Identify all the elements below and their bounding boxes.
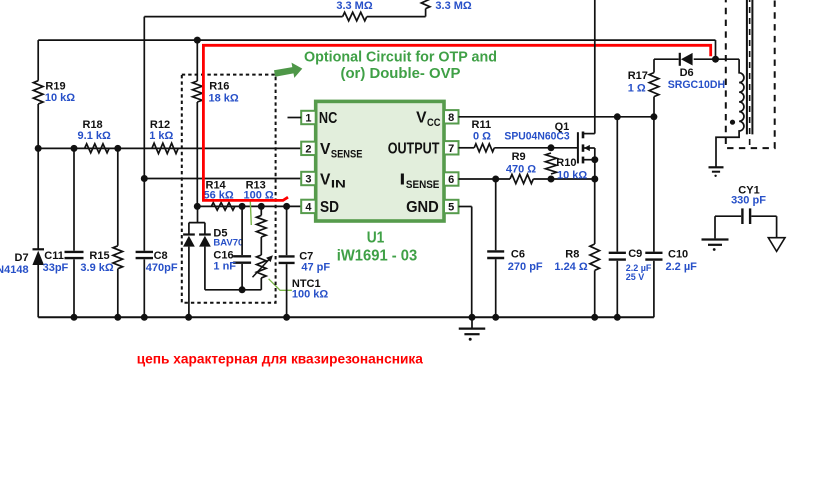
- svg-text:R11: R11: [472, 119, 492, 131]
- svg-text:OUTPUT: OUTPUT: [388, 141, 440, 158]
- label R17: [628, 70, 648, 95]
- label D5: [213, 228, 243, 249]
- pin boxes U1: [301, 110, 458, 213]
- svg-text:R9: R9: [512, 151, 526, 163]
- node Vin-left: [141, 175, 148, 182]
- label 3.3 Mohm horizontal: [336, 0, 373, 12]
- resistor R10: [546, 153, 557, 174]
- wire SD row: [197, 205, 301, 207]
- wire Isense row: [459, 178, 596, 180]
- label 3.3 Mohm vertical: [435, 0, 472, 12]
- label R12: [149, 119, 173, 142]
- svg-text:C6: C6: [511, 249, 525, 261]
- wire CY1 right: [776, 216, 778, 238]
- svg-text:R10: R10: [556, 157, 576, 169]
- transformer polarity dot: [730, 120, 735, 125]
- svg-text:10 kΩ: 10 kΩ: [45, 92, 75, 104]
- label R9: [506, 151, 536, 176]
- diode D6: [680, 53, 693, 66]
- green heading line2: [341, 66, 461, 82]
- ground transformer: [709, 167, 724, 177]
- resistor 3.3 Mohm vertical (cut at top): [421, 0, 430, 9]
- svg-text:33pF: 33pF: [43, 262, 69, 274]
- node Vcc junctions: [614, 113, 658, 120]
- svg-text:4: 4: [305, 201, 312, 213]
- svg-text:7: 7: [448, 143, 454, 155]
- label C7: [299, 251, 330, 274]
- node R10 top: [548, 144, 555, 151]
- red note text: [137, 350, 423, 366]
- wire output row: [459, 147, 578, 149]
- capacitor C11: [65, 148, 84, 317]
- svg-text:C11: C11: [44, 250, 64, 262]
- label CY1: [731, 185, 766, 207]
- node snubber junction: [712, 56, 719, 63]
- svg-text:D7: D7: [15, 252, 29, 264]
- wire bulk rail y=40: [38, 39, 715, 41]
- resistor R18: [85, 144, 110, 153]
- wire R16 vertical: [196, 40, 198, 206]
- green heading line1: [304, 50, 497, 66]
- svg-text:100 kΩ: 100 kΩ: [292, 289, 329, 301]
- resistor R12: [152, 143, 178, 153]
- ground earth CY1 right: [768, 238, 785, 252]
- wire Vcc row: [459, 116, 654, 118]
- label C16: [213, 250, 236, 273]
- capacitor C7: [279, 206, 295, 317]
- svg-text:2: 2: [305, 143, 311, 155]
- svg-text:R17: R17: [628, 70, 648, 82]
- transistor Q1: [578, 0, 598, 179]
- ground CY1 left: [702, 240, 729, 251]
- resistor R13: [257, 206, 267, 255]
- label R16: [209, 81, 239, 105]
- label U1: [367, 230, 385, 247]
- resistor R15: [113, 148, 123, 317]
- label C9: [626, 248, 652, 282]
- svg-text:SENSE: SENSE: [406, 179, 440, 191]
- wire Vin row: [144, 178, 301, 180]
- transformer dashed box: [726, 0, 775, 148]
- svg-text:V: V: [416, 110, 427, 127]
- node Isense junctions: [492, 176, 598, 183]
- capacitor C9: [609, 117, 626, 317]
- node bulk-R16: [194, 37, 201, 44]
- ground main: [459, 317, 486, 341]
- wire snubber top: [654, 59, 739, 72]
- wire ground bus: [38, 316, 654, 318]
- svg-text:I: I: [399, 172, 405, 189]
- label R13: [243, 179, 273, 201]
- svg-text:0 Ω: 0 Ω: [473, 131, 491, 143]
- wire CY1 left: [714, 216, 716, 238]
- svg-text:SRGC10DH: SRGC10DH: [668, 79, 725, 91]
- svg-text:iW1691 - 03: iW1691 - 03: [337, 248, 418, 265]
- svg-text:1: 1: [305, 113, 311, 125]
- svg-text:U1: U1: [367, 230, 385, 247]
- svg-text:Optional Circuit for OTP and: Optional Circuit for OTP and: [304, 50, 497, 66]
- wire pin5 GND: [459, 207, 472, 318]
- label R14: [203, 179, 233, 201]
- svg-text:1N4148: 1N4148: [0, 264, 29, 276]
- svg-text:GND: GND: [406, 199, 439, 216]
- label iW1691-03: [337, 248, 418, 265]
- svg-text:D6: D6: [680, 67, 694, 79]
- svg-text:5: 5: [448, 202, 454, 214]
- svg-text:NC: NC: [319, 110, 337, 127]
- label R18: [78, 119, 111, 142]
- transformer core: [747, 0, 753, 147]
- svg-text:R16: R16: [209, 81, 229, 93]
- svg-text:3.3 MΩ: 3.3 MΩ: [435, 0, 472, 12]
- svg-text:1 kΩ: 1 kΩ: [149, 130, 173, 142]
- label R8: [554, 249, 587, 273]
- svg-text:1 nF: 1 nF: [213, 260, 236, 272]
- wire Vsense row: [38, 147, 301, 149]
- label R10: [556, 157, 587, 182]
- svg-text:C8: C8: [154, 250, 168, 262]
- svg-text:3.3 MΩ: 3.3 MΩ: [336, 0, 373, 12]
- resistor R14: [211, 203, 235, 211]
- pin 1 stub NC: [288, 117, 302, 119]
- node SD junctions: [194, 203, 290, 210]
- green arrow: [274, 63, 302, 78]
- resistor R11: [474, 144, 494, 152]
- wire mid vertical x=144: [143, 17, 145, 179]
- label R19: [45, 80, 75, 104]
- pin names U1: [319, 110, 441, 217]
- svg-text:SENSE: SENSE: [331, 149, 363, 161]
- resistor R17: [649, 73, 659, 117]
- dashed box optional circuit: [182, 75, 276, 303]
- svg-text:270 pF: 270 pF: [508, 261, 543, 273]
- svg-text:BAV70: BAV70: [213, 237, 243, 248]
- svg-text:SPU04N60C3: SPU04N60C3: [504, 131, 569, 143]
- leader NTC1: [269, 279, 292, 291]
- label D7: [0, 252, 29, 276]
- svg-text:C9: C9: [628, 248, 642, 260]
- svg-text:9.1 kΩ: 9.1 kΩ: [78, 130, 111, 142]
- resistor R19: [33, 81, 43, 104]
- svg-text:18 kΩ: 18 kΩ: [209, 93, 239, 105]
- svg-text:(or) Double- OVP: (or) Double- OVP: [341, 66, 461, 82]
- label R11: [472, 119, 492, 143]
- bus junction dots: [71, 314, 621, 321]
- node rail-C16: [239, 286, 246, 293]
- label C8: [146, 250, 178, 274]
- wire left vertical top: [37, 40, 39, 81]
- wire left vertical middle: [37, 104, 39, 249]
- capacitor C8: [136, 179, 153, 318]
- svg-text:C10: C10: [668, 249, 688, 261]
- diode D5 (BAV70 dual): [183, 206, 211, 317]
- svg-text:R19: R19: [45, 80, 65, 92]
- svg-text:6: 6: [448, 174, 454, 186]
- resistor R8: [590, 179, 600, 317]
- svg-text:470 Ω: 470 Ω: [506, 164, 536, 176]
- label C6: [508, 249, 543, 273]
- wire bulk corner: [715, 40, 717, 59]
- op-amp U1 body: [316, 101, 444, 221]
- svg-text:цепь характерная для квазирезо: цепь характерная для квазирезонансника: [137, 350, 423, 366]
- svg-text:3.9 kΩ: 3.9 kΩ: [80, 262, 113, 274]
- resistor 3.3 Mohm horizontal: [343, 12, 367, 21]
- svg-text:V: V: [320, 171, 331, 188]
- wire NTC local rail: [205, 289, 261, 291]
- svg-text:47 pF: 47 pF: [301, 262, 330, 274]
- capacitor C6: [487, 179, 504, 317]
- capacitor C10: [645, 117, 662, 317]
- svg-text:470pF: 470pF: [146, 262, 178, 274]
- label NTC1: [292, 278, 329, 301]
- svg-text:V: V: [320, 141, 331, 158]
- label Q1: [504, 121, 569, 143]
- svg-text:2.2 µF: 2.2 µF: [666, 261, 698, 273]
- red annotation path: [202, 45, 711, 200]
- resistor R16: [193, 81, 203, 102]
- diode D7: [32, 249, 44, 317]
- resistor R9: [510, 174, 533, 183]
- svg-text:25 V: 25 V: [626, 272, 645, 282]
- label D6: [668, 67, 725, 91]
- label C11: [43, 250, 69, 274]
- svg-text:R8: R8: [565, 249, 579, 261]
- label C10: [666, 249, 698, 273]
- leader R13: [250, 199, 251, 225]
- thermistor NTC1: [253, 255, 273, 290]
- capacitor CY1: [715, 208, 777, 224]
- svg-text:R15: R15: [89, 250, 109, 262]
- svg-text:8: 8: [448, 112, 454, 124]
- svg-text:CC: CC: [427, 117, 441, 129]
- svg-text:1 Ω: 1 Ω: [628, 83, 646, 95]
- node Vsense-left: [35, 145, 122, 152]
- capacitor C16: [233, 206, 251, 289]
- wire top 3.3M chain: [144, 9, 425, 17]
- svg-text:10 kΩ: 10 kΩ: [557, 170, 587, 182]
- svg-text:1.24 Ω: 1.24 Ω: [554, 261, 587, 273]
- label R15: [80, 250, 113, 274]
- svg-text:IN: IN: [331, 179, 346, 191]
- transformer winding: [716, 59, 744, 166]
- svg-text:SD: SD: [320, 199, 339, 216]
- svg-text:3: 3: [305, 174, 311, 186]
- svg-text:330 pF: 330 pF: [731, 195, 766, 207]
